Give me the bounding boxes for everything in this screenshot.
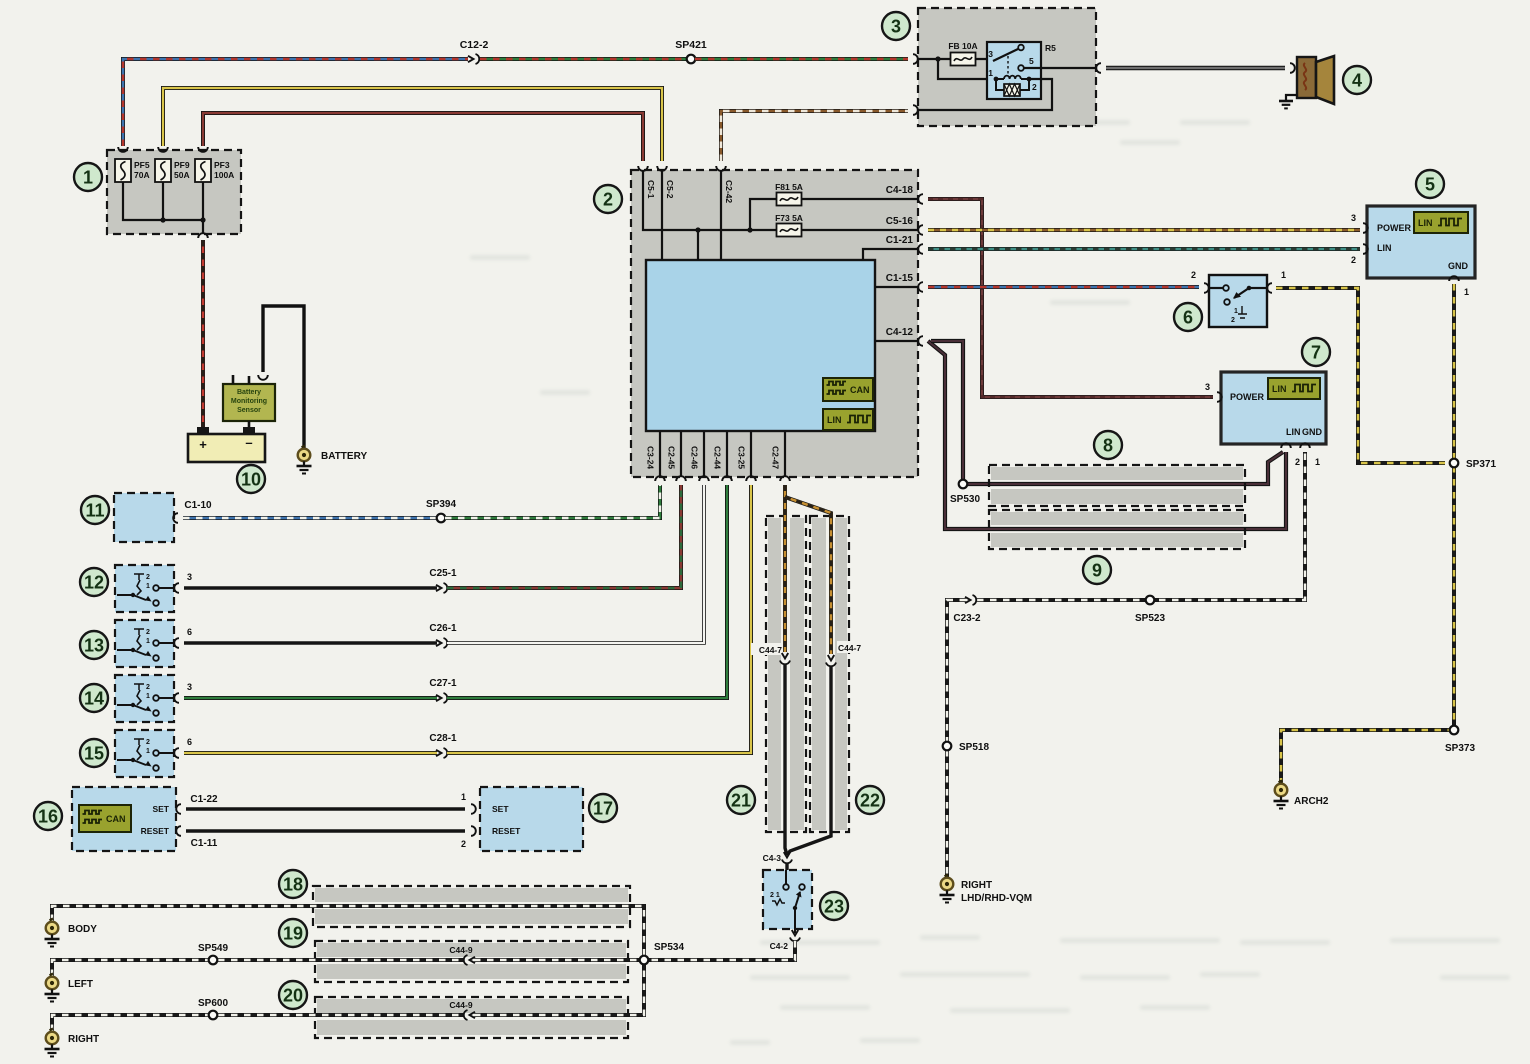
label circle 1 [74,163,102,191]
svg-text:SET: SET [152,804,169,814]
svg-text:1: 1 [83,168,93,188]
wire black/yellow switch 6 to SP371 [1276,288,1445,463]
svg-text:C4-2: C4-2 [770,941,789,951]
svg-text:PF9: PF9 [174,160,190,170]
svg-text:23: 23 [824,897,844,917]
switch 15 [115,730,174,777]
svg-text:2 1: 2 1 [770,892,780,899]
label circle 2 [594,185,622,213]
module box 2 [631,170,918,477]
svg-text:22: 22 [860,791,880,811]
wire black harness 21 to C4-3 [785,664,787,855]
fuse FB 10A [948,41,977,66]
svg-text:11: 11 [85,501,104,521]
wire blue/white C1-10 to SP394 [183,516,437,520]
fuse PF3 100A [195,159,234,182]
wire maroon/green C25-1 to C2-45 [447,485,681,588]
svg-text:SP534: SP534 [654,942,684,953]
module 7 pin 3 [1205,382,1222,402]
ground BODY [45,919,98,947]
resistor relay suppression [996,79,1029,96]
wire BMS to ground battery [263,306,304,449]
svg-text:6: 6 [187,737,192,747]
label circle 18 [279,870,307,898]
harness box 21 [766,516,806,832]
svg-text:C1-22: C1-22 [190,794,218,805]
sensor box 11 [114,493,174,542]
svg-text:C2-45: C2-45 [667,446,677,469]
connector C23-2 [953,595,981,624]
svg-text:6: 6 [187,627,192,637]
wire green/white SP394 to C3-24 [445,485,660,518]
svg-text:2: 2 [146,684,150,691]
connector pin C5-2 [657,166,675,199]
svg-text:50A: 50A [174,170,190,180]
svg-text:C5-16: C5-16 [886,216,914,227]
module 17 SET pin 1 [461,792,509,814]
wire black switch 13 to C26-1 [184,641,437,644]
module box 16 [72,787,176,851]
wire orange C2-47 through harness 21 [783,485,787,652]
svg-text:3: 3 [187,682,192,692]
BMS pin stub [233,375,249,384]
harness box 9 [989,510,1245,549]
svg-text:21: 21 [731,791,751,811]
splice SP549 [198,943,228,964]
connector C4-18 [886,185,923,204]
svg-text:SP549: SP549 [198,943,228,954]
wire dark SP530 to LIN module 7 pin 2 [963,452,1283,488]
label circle 16 [34,802,62,830]
harness box 18 [313,886,630,927]
svg-text:2: 2 [1351,255,1356,265]
svg-text:19: 19 [283,924,303,944]
label circle 11 [81,496,109,524]
wire C5-1 internal [643,171,776,260]
battery monitoring sensor [223,384,275,421]
wire white C26-1 to C2-46 [447,485,704,643]
wire C5-2 internal [661,171,663,260]
wire black/white right ground row 20b [474,963,644,1015]
splice SP394 [426,499,456,522]
label circle 20 [279,981,307,1009]
svg-text:RESET: RESET [492,826,521,836]
connector C44-7 right [826,641,871,666]
svg-text:BODY: BODY [68,924,97,935]
svg-text:FB 10A: FB 10A [948,41,977,51]
connector C25-1 [429,568,457,593]
connector C1-21 [886,235,923,254]
relay box 3 [918,8,1096,126]
connector pin PF9 top [158,147,168,152]
svg-text:PF5: PF5 [134,160,150,170]
svg-text:C44-7: C44-7 [838,643,861,653]
svg-text:C1-11: C1-11 [191,838,218,849]
svg-text:2: 2 [603,190,613,210]
label circle 22 [856,786,884,814]
svg-text:C2-44: C2-44 [713,446,723,469]
ground ARCH2 [1274,780,1329,809]
svg-text:10: 10 [241,470,261,490]
module 7 pin 1 GND [1300,443,1320,467]
svg-text:15: 15 [84,744,104,764]
wire module to C4-12 [875,340,918,342]
connector pin C5-1 [638,166,656,199]
svg-text:POWER: POWER [1377,223,1412,233]
relay R5 [987,42,1056,99]
switch 6 pin 2 [1191,270,1209,293]
wire relay internal feed [918,56,996,79]
splice SP518 [943,742,990,753]
label circle 8 [1094,431,1122,459]
svg-text:C5-1: C5-1 [646,180,656,199]
splice SP371 [1450,459,1497,470]
relay pin 3 [988,49,993,59]
svg-text:3: 3 [1205,382,1210,392]
svg-text:7: 7 [1311,343,1321,363]
svg-text:C27-1: C27-1 [429,678,457,689]
wire black/white body ground row 18 [52,906,644,957]
wire red/black fusebox to battery [201,240,205,428]
svg-text:POWER: POWER [1230,392,1265,402]
module box 17 [480,787,583,851]
label circle 21 [727,786,755,814]
svg-text:CAN: CAN [850,385,870,395]
svg-text:C44-9: C44-9 [449,945,472,955]
switch 23 [763,870,812,929]
svg-text:LHD/RHD-VQM: LHD/RHD-VQM [961,893,1032,904]
harness box 8 [989,465,1245,506]
wire BMS to battery minus [248,421,251,428]
wire F81 to C4-18 [802,198,918,200]
svg-text:C28-1: C28-1 [429,733,457,744]
svg-text:SP600: SP600 [198,998,228,1009]
connector C1-15 [886,273,923,292]
svg-text:1: 1 [146,583,150,590]
svg-text:12: 12 [84,573,104,593]
module 17 RESET pin 2 [461,826,521,849]
wire F73 to C5-16 [802,229,918,231]
module 5 pin 1 GND [1449,276,1469,297]
wire C2-42 internal [720,171,722,260]
wire black switch 12 to C25-1 [184,586,437,589]
svg-text:C23-2: C23-2 [953,613,981,624]
wire relay coil return [918,79,1052,110]
switch 13 [115,620,174,667]
wire black/yellow module 5 GND to SP373 to ARCH2 [1281,284,1454,786]
LIN icon module 2 [823,409,873,430]
connector pin fusebox bottom [198,233,208,238]
svg-text:1: 1 [1315,457,1320,467]
harness box 19 [315,941,628,982]
label circle 13 [80,631,108,659]
connector C27-1 [429,678,457,703]
wire black/white C4-2 to SP534 [648,941,795,960]
wire green C27-1 to C2-44 [447,485,727,698]
splice SP523 [1135,596,1165,624]
svg-text:C26-1: C26-1 [429,623,457,634]
wire fuse to relay contact [976,58,993,60]
connector BMS top [258,375,268,380]
wire dark C4-12 to SP530 [931,341,963,480]
connector relay output right [1096,63,1101,73]
svg-text:C2-47: C2-47 [771,446,781,469]
splice SP534 [640,942,685,964]
wire black/white C23-2 to ground right [947,600,966,877]
svg-text:C3-25: C3-25 [737,446,747,469]
svg-text:SP394: SP394 [426,499,456,510]
wire battery feed blue/red PF5 to C12-2 [123,59,468,146]
connector pin C2-47 [771,446,790,481]
LIN module 5 [1367,206,1475,278]
svg-text:SP518: SP518 [959,742,989,753]
connector pin C3-25 [737,446,756,481]
wire black/white left ground row 19a [52,960,464,976]
wire maroon PF3 to C5-1 [203,113,643,161]
label circle 19 [279,919,307,947]
wire dark C4-12 to SP530 branch lower [928,341,1286,529]
CAN icon module 2 [823,378,873,401]
module 16 SET pin [152,804,181,814]
connector C4-3 [763,852,792,863]
wire bottom pins internal [660,431,785,477]
label circle 5 [1416,170,1444,198]
svg-text:100A: 100A [214,170,234,180]
ground LEFT [45,974,94,1002]
splice SP421 [675,39,707,63]
switch 6 [1209,275,1267,327]
svg-text:C5-2: C5-2 [665,180,675,199]
svg-text:2: 2 [146,739,150,746]
connector C44-9 row 19 [449,945,475,965]
ground horn [1279,95,1297,108]
svg-text:+: + [199,437,207,452]
connector C1-10 [173,500,212,523]
svg-text:C4-12: C4-12 [886,327,914,338]
label circle 7 [1302,338,1330,366]
svg-text:C4-18: C4-18 [886,185,914,196]
svg-text:6: 6 [1183,308,1193,328]
svg-text:2: 2 [1032,82,1037,92]
wire brown/white C2-42 to relay [721,111,908,161]
fuse F81 5A [775,182,803,206]
svg-text:–: – [245,435,252,450]
module 5 pin 3 [1351,213,1368,233]
connector C12-2 [460,39,489,64]
CAN icon module 16 [79,805,131,832]
harness box 22 [810,516,849,832]
svg-text:8: 8 [1103,436,1113,456]
svg-text:2: 2 [1191,270,1196,280]
fuse PF5 70A [115,159,150,182]
LIN icon module 5 [1414,212,1468,233]
svg-text:LEFT: LEFT [68,979,93,990]
svg-text:LIN: LIN [1377,243,1392,253]
svg-text:GND: GND [1448,261,1469,271]
svg-text:F81 5A: F81 5A [775,182,803,192]
svg-text:RESET: RESET [141,826,170,836]
svg-text:C44-7: C44-7 [759,645,782,655]
svg-text:BATTERY: BATTERY [321,451,367,462]
horn 4 [1297,56,1334,104]
battery 10 [188,427,265,462]
svg-text:1: 1 [988,68,993,78]
svg-text:LIN: LIN [1272,384,1287,394]
module 7 pin 2 LIN [1281,443,1300,467]
connector pin C2-42 [716,166,734,203]
svg-text:9: 9 [1092,561,1102,581]
connector pin C3-24 [646,446,665,481]
wire green/red C12-2 to SP421 [480,57,688,61]
svg-text:LIN: LIN [1286,427,1301,437]
wire C4-3 to switch 23 [785,863,788,870]
label C1-22 [190,794,218,805]
switch 6 pin 1 [1267,270,1286,293]
svg-text:SP373: SP373 [1445,743,1475,754]
relay pin 1 [988,68,993,78]
wire black/white left ground row 19b [474,958,640,962]
wire brown/yellow C5-16 to LIN module 5 pin 3 [928,228,1360,232]
svg-text:3: 3 [187,572,192,582]
svg-text:5: 5 [1425,175,1435,195]
svg-text:1: 1 [1234,308,1238,315]
connector pin C2-46 [690,446,709,481]
svg-text:3: 3 [891,17,901,37]
label circle 17 [589,794,617,822]
connector relay input [913,54,918,64]
connector horn [1290,63,1295,73]
fuse PF9 50A [155,159,190,182]
label circle 6 [1174,303,1202,331]
svg-text:CAN: CAN [106,814,126,824]
svg-text:13: 13 [84,636,104,656]
label circle 15 [80,739,108,767]
label circle 3 [882,12,910,40]
connector C28-1 [429,733,457,758]
svg-text:2: 2 [461,839,466,849]
svg-text:LIN: LIN [1418,218,1433,228]
ground RIGHT LHD/RHD-VQM [940,875,1033,905]
label C1-11 [191,838,218,849]
svg-text:F73 5A: F73 5A [775,213,803,223]
switch 14 pin 3 [174,682,192,703]
label circle 4 [1343,66,1371,94]
svg-text:C4-3: C4-3 [763,853,782,863]
svg-text:1: 1 [146,638,150,645]
wire green switch 14 to C27-1 [184,696,437,700]
svg-text:C3-24: C3-24 [646,446,656,469]
svg-text:C2-46: C2-46 [690,446,700,469]
svg-text:4: 4 [1352,71,1362,91]
svg-text:GND: GND [1302,427,1323,437]
LIN icon module 7 [1268,378,1320,399]
connector relay coil return left [913,105,918,115]
svg-text:2: 2 [1231,317,1235,324]
wire black/white right ground row 20a [52,1015,464,1031]
svg-text:C1-15: C1-15 [886,273,914,284]
svg-text:C12-2: C12-2 [460,39,489,51]
relay pin 5 [1029,56,1034,66]
connector C4-12 [886,327,923,346]
svg-text:LIN: LIN [827,415,842,425]
decor [470,120,1510,1045]
label circle 14 [80,684,108,712]
svg-text:RIGHT: RIGHT [68,1034,99,1045]
svg-text:2: 2 [1295,457,1300,467]
wire module to C1-15 [875,286,918,288]
svg-text:C1-21: C1-21 [886,235,914,246]
wire green/red SP421 to relay box [695,57,908,61]
wire fuse output bus [123,182,206,234]
ground BATTERY [297,446,368,474]
fuse F73 5A [775,213,803,237]
wire blue/red C1-15 to switch 6 [928,285,1199,289]
svg-text:20: 20 [283,986,303,1006]
switch 12 [115,565,174,612]
svg-text:2: 2 [146,629,150,636]
svg-text:SET: SET [492,804,509,814]
fuse box F1 [107,150,241,234]
svg-text:PF3: PF3 [214,160,230,170]
svg-text:C25-1: C25-1 [429,568,457,579]
label circle 10 [237,465,265,493]
svg-text:3: 3 [1351,213,1356,223]
svg-text:C1-10: C1-10 [184,500,212,511]
svg-text:SP530: SP530 [950,494,980,505]
svg-text:SP421: SP421 [675,39,707,51]
label circle 12 [80,568,108,596]
svg-text:RIGHT: RIGHT [961,880,992,891]
splice SP530 [950,480,980,505]
svg-text:SP523: SP523 [1135,613,1165,624]
wire maroon C4-18 to LIN module 7 [928,199,1213,397]
wire teal C1-21 to LIN module 5 pin 2 [928,247,1360,251]
svg-text:70A: 70A [134,170,150,180]
svg-text:2: 2 [146,574,150,581]
relay switch contact [993,45,1024,74]
splice SP373 [1445,726,1475,754]
svg-text:Sensor: Sensor [237,407,261,414]
module 5 pin 2 [1351,244,1368,265]
wire yellow PF9 to C5-2 [163,88,662,161]
svg-text:Battery: Battery [237,389,261,396]
wire orange C2-47 through harness 22 [785,497,831,654]
svg-text:R5: R5 [1045,43,1056,53]
connector C26-1 [429,623,457,648]
relay pin 2 [1032,82,1037,92]
connector pin PF5 top [118,147,128,152]
ground RIGHT [45,1029,100,1057]
wire relay output internal [1024,67,1096,69]
svg-text:1: 1 [146,748,150,755]
wire module to C1-21 [863,249,918,260]
label circle 23 [820,892,848,920]
label circle 9 [1083,556,1111,584]
svg-text:1: 1 [461,792,466,802]
svg-text:1: 1 [1464,287,1469,297]
connector C5-16 [886,216,923,235]
svg-text:C2-42: C2-42 [724,180,734,203]
svg-text:SP371: SP371 [1466,459,1496,470]
svg-text:16: 16 [38,807,58,827]
connector C44-7 left [751,643,790,664]
wire black harness 22 to C4-3 [787,666,831,855]
wire C1-22 SET [186,807,465,810]
svg-text:5: 5 [1029,56,1034,66]
svg-text:1: 1 [1281,270,1286,280]
svg-text:14: 14 [84,689,104,709]
wire yellow switch 15 to C28-1 [184,751,437,755]
